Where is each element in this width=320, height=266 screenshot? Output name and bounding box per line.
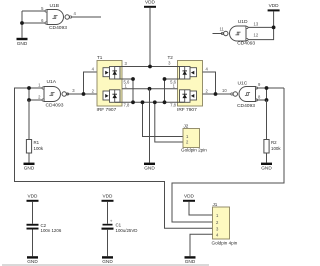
wire U1D inputs to VDD — [247, 11, 274, 39]
resistor R1 — [26, 140, 31, 154]
wire OUT1 to J2 pin1 — [143, 102, 184, 136]
junction row3 GND — [148, 87, 152, 91]
svg-text:U1B: U1B — [50, 3, 60, 9]
connector J1 — [213, 207, 230, 239]
nand gate U1C — [239, 87, 255, 102]
svg-text:IRF 7907: IRF 7907 — [177, 107, 197, 113]
svg-text:VDD: VDD — [103, 194, 114, 199]
svg-text:GND: GND — [102, 259, 113, 264]
svg-text:CD4093: CD4093 — [237, 103, 255, 109]
svg-text:13: 13 — [254, 22, 259, 27]
junction T1 out row2 — [131, 77, 135, 81]
svg-text:CD4093: CD4093 — [237, 41, 255, 47]
junction U1D input — [272, 26, 276, 30]
ground GND (U1B inputs) — [17, 38, 28, 40]
wire T2 gate drive from U1C — [203, 93, 234, 95]
svg-text:VDD: VDD — [28, 194, 39, 199]
svg-text:10: 10 — [222, 88, 227, 93]
svg-text:U1C: U1C — [238, 81, 248, 87]
svg-text:GND: GND — [185, 259, 196, 264]
transistor T1 package — [97, 61, 122, 107]
svg-text:GND: GND — [17, 41, 28, 46]
wire net IN2 right rail (J1.2 to U1C) — [172, 88, 284, 222]
svg-text:J1: J1 — [213, 202, 218, 207]
connector J2 — [183, 129, 200, 148]
svg-text:IRF 7907: IRF 7907 — [97, 107, 117, 113]
svg-text:U1A: U1A — [47, 79, 57, 85]
svg-text:U1D: U1D — [238, 19, 248, 25]
svg-text:GND: GND — [144, 166, 155, 171]
wire VDD to C1 — [107, 202, 109, 224]
supply VDD (C2) — [27, 200, 39, 202]
wire R2 to input rail — [266, 100, 268, 140]
supply VDD (top right) — [268, 9, 280, 11]
svg-text:R2: R2 — [271, 140, 277, 145]
supply VDD (J1) — [183, 200, 195, 202]
ground GND (R2) — [261, 163, 272, 165]
transistor T2 top cell (P-FET with body diode) — [190, 68, 197, 77]
junction row1 VDD — [148, 65, 152, 69]
capacitor C1 — [103, 224, 113, 226]
wire U1D output stub pin 11 — [213, 33, 223, 35]
supply VDD (top center) — [144, 6, 156, 8]
junction U1C input1 — [265, 86, 269, 90]
nand gate U1B — [47, 10, 64, 25]
ground GND (bridge) — [144, 163, 155, 165]
junction T1 out row4 — [131, 100, 135, 104]
supply VDD (C1) — [102, 200, 114, 202]
ground GND (C1) — [102, 256, 113, 258]
wire row2 T1 output 5,6 — [115, 78, 133, 80]
svg-text:VDD: VDD — [145, 0, 156, 5]
ground GND (R1) — [24, 163, 35, 165]
junction U1B inputs — [20, 21, 24, 25]
transistor T2 bottom cell (N-FET with body diode) — [190, 91, 197, 100]
svg-text:100k: 100k — [271, 146, 281, 151]
svg-text:C1: C1 — [116, 223, 122, 228]
junction T2 gate drive — [214, 92, 218, 96]
wire VDD to C2 — [32, 202, 34, 224]
wire J1 pin4 to GND — [190, 234, 213, 256]
transistor T2 package — [178, 61, 203, 107]
svg-text:CD4093: CD4093 — [49, 25, 67, 31]
svg-text:7,8: 7,8 — [170, 103, 176, 108]
wire T1 output join — [132, 79, 134, 102]
wire C2 to GND — [32, 230, 34, 257]
capacitor C2 — [27, 224, 39, 226]
svg-text:Goldpin 2pin: Goldpin 2pin — [181, 147, 207, 152]
wire U1A input2 branch — [29, 88, 44, 100]
svg-text:100n 1206: 100n 1206 — [41, 228, 62, 233]
svg-text:+: + — [110, 219, 113, 224]
wire U1C input2 (pin 8) branch — [256, 99, 266, 101]
nand gate U1D — [230, 26, 246, 41]
svg-text:J2: J2 — [184, 123, 189, 128]
junction OUT1 row4 — [141, 100, 145, 104]
svg-text:T2: T2 — [168, 55, 174, 60]
wire row3 GND net (T1.1 - T2.1) — [122, 88, 178, 90]
svg-text:GND: GND — [24, 166, 35, 171]
nand gate U1A — [44, 87, 61, 102]
junction T2 out row4 — [163, 100, 167, 104]
wire OUT2 to J2 pin2 — [155, 102, 183, 142]
wire U1A output to T1 gates — [67, 93, 98, 95]
wire net IN1 left rail (J1.3 to U1A) — [15, 88, 213, 228]
junction T2 out row2 — [163, 77, 167, 81]
resistor R2 — [264, 140, 269, 154]
wire U1B input net to GND — [21, 11, 23, 38]
junction T1 gate drive — [82, 92, 86, 96]
wire row2 T2 output 5,6 — [165, 78, 185, 80]
wire row1 VDD net (T1.3 - T2.3) — [115, 66, 185, 68]
ground GND (C2) — [27, 256, 38, 258]
svg-text:100u/25VD: 100u/25VD — [116, 228, 138, 233]
svg-text:GND: GND — [27, 259, 38, 264]
wire C1 to GND — [107, 230, 109, 257]
wire U1C input1 (pin 9) to IN2 rail — [256, 87, 284, 89]
svg-text:7,8: 7,8 — [124, 103, 130, 108]
transistor T1 bottom cell (N-FET with body diode) — [103, 91, 110, 100]
svg-text:CD4093: CD4093 — [46, 102, 64, 108]
svg-text:100k: 100k — [34, 146, 44, 151]
svg-text:GND: GND — [261, 166, 272, 171]
wire GND drop (bridge) — [149, 89, 151, 163]
svg-text:T1: T1 — [97, 55, 103, 60]
wire R1 to input rail — [28, 100, 30, 140]
ground GND (J1) — [185, 256, 196, 258]
svg-text:Goldpin 4pin: Goldpin 4pin — [212, 240, 238, 245]
svg-text:C2: C2 — [41, 223, 47, 228]
svg-text:VDD: VDD — [269, 3, 280, 8]
wire T2 output join — [164, 79, 166, 102]
junction U1A input2 — [27, 98, 31, 102]
wire row4 7,8 net — [115, 101, 185, 103]
junction U1A input1 — [27, 86, 31, 90]
junction OUT2 row4 — [153, 100, 157, 104]
wire R2 to GND — [266, 153, 268, 163]
frame bottom border — [2, 264, 209, 266]
wire U1B output stub pin 4 — [72, 16, 101, 18]
wire VDD to bridge row1 — [149, 8, 151, 67]
svg-text:R1: R1 — [34, 140, 40, 145]
wire R1 to GND — [28, 153, 30, 163]
junction U1C input2 — [265, 98, 269, 102]
wire VDD to J1 pin1 — [189, 202, 213, 215]
svg-text:VDD: VDD — [184, 194, 195, 199]
svg-text:12: 12 — [254, 33, 259, 38]
svg-text:11: 11 — [220, 27, 225, 32]
transistor T1 top cell (P-FET with body diode) — [103, 68, 110, 77]
